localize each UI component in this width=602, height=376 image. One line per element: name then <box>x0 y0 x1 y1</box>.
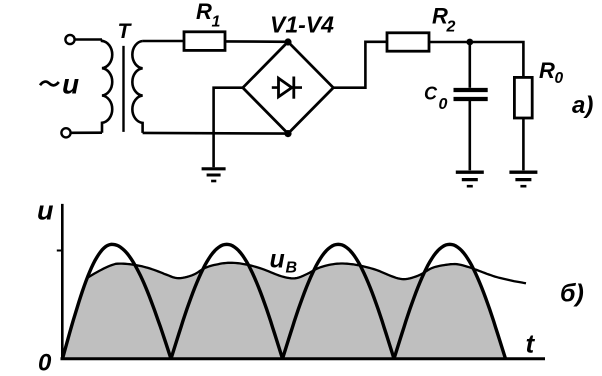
curve: rectified half-wave 4 <box>394 244 506 358</box>
terminal: input terminal bottom <box>61 128 70 137</box>
node: filter output junction <box>466 39 473 46</box>
svg-text:t: t <box>526 329 536 359</box>
svg-text:V1-V4: V1-V4 <box>270 12 334 38</box>
svg-text:u: u <box>62 69 79 100</box>
svg-text:T: T <box>118 20 133 43</box>
svg-text:R: R <box>539 58 555 83</box>
wire: secondary bottom to bridge bottom corner <box>143 132 288 135</box>
svg-text:C: C <box>424 84 438 104</box>
svg-text:u: u <box>270 245 285 273</box>
svg-text:2: 2 <box>446 19 456 36</box>
transformer core <box>122 46 124 132</box>
wire: junction down to C0 <box>468 42 471 88</box>
ground: C0 ground symbol <box>456 172 484 186</box>
resistor R1 <box>184 32 225 51</box>
svg-text:В: В <box>286 260 298 277</box>
curve: smoothed output voltage uB <box>87 263 526 284</box>
svg-text:0: 0 <box>555 70 564 87</box>
svg-text:u: u <box>37 196 54 226</box>
curve: rectified half-wave 3 <box>283 244 395 358</box>
wire: bridge left corner to ground branch <box>214 88 243 168</box>
wire: C0 to ground <box>468 101 471 170</box>
curve: rectified half-wave 1 <box>63 244 172 358</box>
shaded output voltage area (graph b) <box>63 263 506 359</box>
label: ~u AC source voltage <box>40 82 59 86</box>
ground: R0 ground symbol <box>509 172 537 186</box>
diode symbol: cathode bar <box>292 77 295 99</box>
wire: bridge right corner up to R2 <box>333 42 387 88</box>
terminal: input terminal top <box>65 35 74 44</box>
node: bridge top junction <box>284 38 291 45</box>
axis tick on u axis <box>57 250 63 252</box>
svg-text:а): а) <box>572 92 593 119</box>
wire: secondary top to R1 <box>143 40 185 43</box>
diode bridge V1-V4 diamond <box>243 42 333 134</box>
diode symbol inside bridge: anode line <box>272 86 302 89</box>
svg-text:0: 0 <box>38 350 52 376</box>
capacitor C0 plates <box>454 90 488 99</box>
axis: horizontal t axis <box>61 357 546 360</box>
wire: R2 to output node and R0 corner <box>429 42 523 77</box>
wire: R1 to bridge top corner <box>225 40 288 43</box>
axis: vertical u axis <box>61 204 64 360</box>
wire: AC input bottom lead <box>71 131 102 134</box>
wire: AC input top lead <box>75 38 102 41</box>
resistor R0 (load) <box>514 77 532 118</box>
node: bridge bottom junction <box>284 130 291 137</box>
svg-text:0: 0 <box>439 96 448 113</box>
wire: R0 to ground <box>522 118 525 170</box>
diode symbol: triangle <box>279 78 292 97</box>
transformer T primary winding <box>102 40 112 133</box>
transformer T secondary winding <box>132 41 142 133</box>
curve: rectified half-wave 2 <box>171 244 283 358</box>
svg-text:б): б) <box>560 280 584 308</box>
resistor R2 <box>387 33 429 51</box>
svg-text:1: 1 <box>212 14 221 31</box>
ground: bridge ground symbol <box>202 169 226 181</box>
svg-text:R: R <box>196 0 212 24</box>
